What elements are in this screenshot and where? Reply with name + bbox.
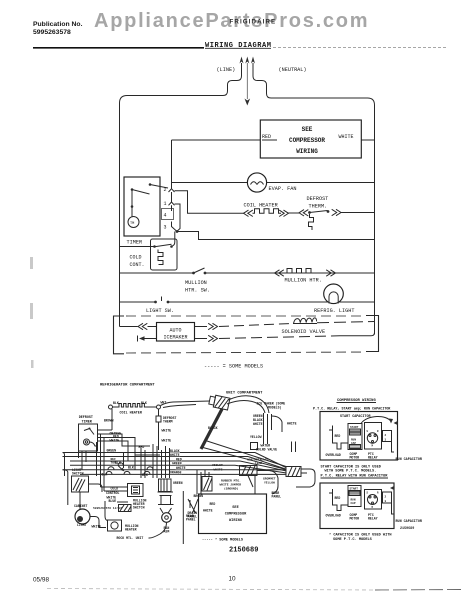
svg-text:COIL HEATER: COIL HEATER xyxy=(244,203,278,209)
svg-text:WHITE: WHITE xyxy=(339,134,354,140)
svg-text:2150689: 2150689 xyxy=(229,547,258,555)
svg-text:WHITE: WHITE xyxy=(162,429,172,433)
svg-text:2: 2 xyxy=(164,187,167,193)
svg-text:SWITCH: SWITCH xyxy=(72,472,84,476)
svg-text:LIGHT SW.: LIGHT SW. xyxy=(146,308,174,314)
svg-text:RUBBER MTG.: RUBBER MTG. xyxy=(221,480,241,483)
svg-text:RUN CAPACITOR: RUN CAPACITOR xyxy=(396,520,423,524)
svg-text:----- = SOME MODELS: ----- = SOME MODELS xyxy=(204,364,263,370)
svg-text:05/98: 05/98 xyxy=(33,577,49,584)
svg-text:CABINET: CABINET xyxy=(74,504,87,508)
svg-text:CONT.: CONT. xyxy=(130,262,145,268)
svg-text:COMPRESSOR: COMPRESSOR xyxy=(289,137,325,144)
svg-text:RED: RED xyxy=(335,496,341,500)
svg-text:10: 10 xyxy=(229,576,237,583)
svg-text:BLK: BLK xyxy=(113,401,119,405)
svg-text:TIMER: TIMER xyxy=(127,240,143,246)
svg-text:THERM.: THERM. xyxy=(309,204,328,210)
svg-text:----- * SOME MODELS: ----- * SOME MODELS xyxy=(202,538,244,543)
svg-text:RED: RED xyxy=(335,434,341,438)
svg-text:GREEN: GREEN xyxy=(172,462,182,466)
svg-text:WHITE: WHITE xyxy=(253,422,263,426)
svg-text:BLK: BLK xyxy=(115,461,121,465)
svg-text:YELLOW: YELLOW xyxy=(250,435,262,439)
svg-text:1: 1 xyxy=(164,201,167,207)
svg-text:MULLION: MULLION xyxy=(185,280,207,286)
svg-text:RELAY: RELAY xyxy=(368,516,378,520)
svg-text:YELLOW: YELLOW xyxy=(264,482,275,485)
svg-text:ORANGE: ORANGE xyxy=(170,471,182,475)
svg-text:SWITCH: SWITCH xyxy=(133,506,145,510)
svg-text:(NEUTRAL): (NEUTRAL) xyxy=(279,67,307,73)
svg-text:WHITE: WHITE xyxy=(176,466,186,470)
svg-text:PANEL: PANEL xyxy=(272,495,282,499)
svg-text:SOLENOID VALVE: SOLENOID VALVE xyxy=(282,329,326,335)
svg-text:AUTO: AUTO xyxy=(169,328,181,334)
svg-text:MOTOR: MOTOR xyxy=(350,516,360,520)
svg-text:3: 3 xyxy=(164,225,167,231)
svg-text:GREEN: GREEN xyxy=(173,481,183,485)
svg-text:MODELS): MODELS) xyxy=(268,406,281,410)
svg-text:BLACK: BLACK xyxy=(208,426,218,430)
svg-text:WHITE: WHITE xyxy=(110,438,120,442)
svg-text:* CAPACITOR IS ONLY USED WITH: * CAPACITOR IS ONLY USED WITH xyxy=(329,532,392,537)
svg-text:COLD: COLD xyxy=(130,255,142,261)
svg-text:(LINE): (LINE) xyxy=(217,67,236,73)
svg-text:WHITE: WHITE xyxy=(162,439,172,443)
svg-text:ICEMAKER: ICEMAKER xyxy=(163,335,187,341)
svg-text:MOTOR: MOTOR xyxy=(350,456,360,460)
svg-text:P.T.C. RELAY, START P.T.C. REL: P.T.C. RELAY, START P.T.C. RELAY, START … xyxy=(313,408,391,412)
svg-text:WITH SOME P.T.C. MODELS.: WITH SOME P.T.C. MODELS. xyxy=(325,470,377,474)
svg-text:FRIGIDAIRE: FRIGIDAIRE xyxy=(230,19,277,26)
svg-text:HTR. SW.: HTR. SW. xyxy=(185,288,210,294)
svg-text:REFRIG. LIGHT: REFRIG. LIGHT xyxy=(314,308,354,314)
svg-text:WHITE: WHITE xyxy=(287,422,297,426)
svg-text:WHITE: WHITE xyxy=(214,468,223,471)
svg-text:THERM: THERM xyxy=(163,420,173,424)
svg-text:2150689: 2150689 xyxy=(400,527,414,531)
svg-text:WHITE: WHITE xyxy=(203,509,213,513)
svg-text:WIRING: WIRING xyxy=(229,519,242,523)
svg-text:RED: RED xyxy=(210,502,216,506)
svg-text:DEFROST: DEFROST xyxy=(307,196,329,202)
svg-text:WIRING: WIRING xyxy=(296,148,318,155)
svg-text:COMPRESSOR: COMPRESSOR xyxy=(225,513,247,517)
svg-text:(GROUND): (GROUND) xyxy=(224,487,239,491)
svg-text:OVERLOAD: OVERLOAD xyxy=(326,513,341,517)
svg-text:OVERLOAD: OVERLOAD xyxy=(326,453,341,457)
svg-text:VIOLET: VIOLET xyxy=(212,464,223,467)
svg-text:GREEN: GREEN xyxy=(107,449,117,453)
svg-text:RED: RED xyxy=(262,134,271,140)
svg-text:MULLION HTR.: MULLION HTR. xyxy=(285,278,322,284)
svg-text:LIGHT: LIGHT xyxy=(77,523,87,527)
svg-text:WHITE: WHITE xyxy=(170,453,180,457)
svg-text:SEE: SEE xyxy=(232,506,239,510)
svg-text:COIL HEATER: COIL HEATER xyxy=(120,412,143,416)
svg-text:WHITE JUMPER: WHITE JUMPER xyxy=(220,484,242,487)
svg-text:HEATER: HEATER xyxy=(125,528,137,532)
svg-text:PANEL: PANEL xyxy=(186,518,196,522)
svg-text:BLK: BLK xyxy=(128,466,134,470)
svg-text:ROCK MTL. UNIT: ROCK MTL. UNIT xyxy=(117,536,144,540)
svg-text:SOME P.T.C. MODELS: SOME P.T.C. MODELS xyxy=(333,538,373,542)
svg-text:GROMMET: GROMMET xyxy=(263,478,276,481)
svg-text:BROWN: BROWN xyxy=(104,419,114,423)
svg-text:RELAY: RELAY xyxy=(368,456,378,460)
svg-text:REFRIGERATOR COMPARTMENT: REFRIGERATOR COMPARTMENT xyxy=(100,384,155,388)
svg-text:UNIT COMPARTMENT: UNIT COMPARTMENT xyxy=(226,392,263,396)
svg-text:EVAP. FAN: EVAP. FAN xyxy=(269,186,297,192)
svg-text:4: 4 xyxy=(164,213,167,219)
svg-text:SEE: SEE xyxy=(302,126,313,133)
svg-text:TM: TM xyxy=(130,222,134,226)
svg-text:Publication No.: Publication No. xyxy=(33,21,83,28)
svg-text:RUN CAPACITOR: RUN CAPACITOR xyxy=(396,458,423,462)
svg-text:BLUE: BLUE xyxy=(109,499,117,503)
svg-text:CAP: CAP xyxy=(351,502,356,505)
svg-text:BLK: BLK xyxy=(141,401,147,405)
svg-text:SOLND VALVE: SOLND VALVE xyxy=(256,448,277,452)
svg-text:5995263578: 5995263578 xyxy=(33,29,71,36)
svg-text:5995263576 12/97: 5995263576 12/97 xyxy=(93,506,122,510)
